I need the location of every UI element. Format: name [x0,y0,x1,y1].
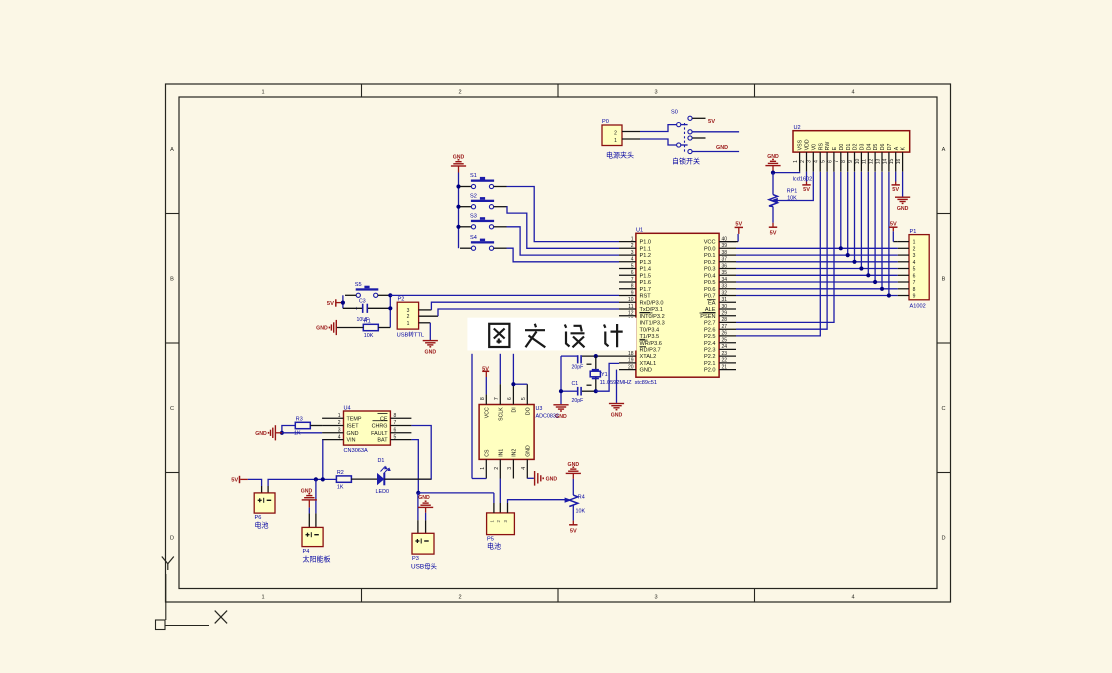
pin 1 U2 [799,152,801,172]
power 5V VCC [719,241,738,243]
svg-text:5V: 5V [327,301,334,307]
svg-text:电池: 电池 [487,542,501,551]
junction cap rail [559,389,563,393]
charger U4 [344,411,391,445]
svg-text:USB转TTL: USB转TTL [397,331,425,339]
pin 33 U1 [719,288,736,290]
svg-text:10: 10 [628,297,634,303]
wire S2 to U1 P1.1 [507,207,620,249]
svg-text:39: 39 [722,243,728,249]
wire BAT down [411,440,418,493]
svg-text:7: 7 [631,277,634,283]
wire P0.3 bus [736,268,898,270]
svg-text:9: 9 [913,294,916,300]
svg-text:2: 2 [494,467,500,470]
pin 4 U1 [619,261,636,263]
svg-text:INT0/P3.2: INT0/P3.2 [640,314,665,320]
svg-text:B: B [942,277,946,283]
adc U3 [479,405,534,460]
svg-text:RW: RW [825,142,831,151]
svg-text:GND: GND [611,413,623,419]
svg-text:GND: GND [347,431,359,437]
svg-text:1: 1 [793,160,799,163]
svg-text:8: 8 [631,284,634,290]
svg-text:C1: C1 [572,381,579,387]
pin 25 U1 [719,342,736,344]
pin 8 U1 [619,288,636,290]
svg-text:S1: S1 [470,173,477,179]
svg-text:S0: S0 [671,110,678,116]
svg-text:RST: RST [640,294,652,300]
pin 2 U3 [499,459,501,478]
svg-text:B: B [170,277,174,283]
wire key ground rail [458,173,460,249]
junction key rail S2 [456,205,460,209]
svg-text:12: 12 [869,159,875,165]
svg-text:P2.3: P2.3 [704,348,716,354]
svg-text:A: A [170,147,174,153]
svg-text:22: 22 [722,358,728,364]
svg-text:2: 2 [458,595,461,601]
svg-text:5V: 5V [892,187,899,193]
svg-text:P1.1: P1.1 [640,246,652,252]
svg-text:S4: S4 [470,235,477,241]
wire RP1 wiper to V0 [778,172,814,201]
svg-text:9: 9 [631,290,634,296]
wire LCD D4 [867,172,869,275]
svg-text:R3: R3 [296,417,303,423]
resistor R3 [295,422,310,428]
wire P0.4 bus [736,274,898,276]
svg-text:A1002: A1002 [910,304,926,310]
svg-text:GND: GND [255,431,267,437]
svg-text:3: 3 [807,160,813,163]
svg-text:BAT: BAT [377,438,388,444]
svg-text:A: A [942,147,946,153]
junction crystal bottom [594,389,598,393]
wire ADC DO join [513,383,527,385]
svg-text:5V: 5V [803,187,810,193]
svg-text:C: C [170,406,174,412]
junction key rail S1 [456,184,460,188]
connector P2 USB-TTL [397,302,418,329]
watermark char ji [604,324,623,347]
svg-text:电源夹头: 电源夹头 [606,150,634,159]
power 5V R4 [572,521,574,525]
svg-text:P2.0: P2.0 [704,368,716,374]
power 5V LCD A [895,172,897,182]
button S1 [460,186,471,188]
wire P0.6 bus [736,288,898,290]
UCS axis icon [165,574,167,620]
svg-text:P1.5: P1.5 [640,273,652,279]
ground reset resistor [335,320,337,335]
svg-text:20pF: 20pF [572,398,584,404]
wire S3 to U1 P1.2 [507,227,620,255]
svg-text:DO: DO [526,407,532,415]
svg-text:1K: 1K [294,431,301,437]
svg-text:3: 3 [507,467,513,470]
svg-text:7: 7 [913,280,916,286]
pin 37 U1 [719,261,736,263]
svg-text:19: 19 [628,358,634,364]
svg-text:P2.6: P2.6 [704,327,716,333]
wire P0 pin1 to S0 [622,138,640,140]
svg-text:10: 10 [855,159,861,165]
svg-text:P6: P6 [255,515,262,521]
wire ADC IN1 to P5 [499,479,501,504]
pin 10 U2 [860,152,862,172]
svg-text:5V: 5V [231,478,238,484]
svg-text:5V: 5V [735,222,742,228]
connector P0 [602,125,622,146]
svg-text:4: 4 [338,434,341,440]
svg-text:TEMP: TEMP [347,416,362,422]
pin 5 U1 [619,268,636,270]
pin 4 U4 [322,439,343,441]
svg-text:D: D [170,536,174,542]
svg-text:1: 1 [614,138,617,144]
junction contrast [771,171,775,175]
svg-text:CS: CS [485,449,491,457]
wire S0 contact 1 stub [692,117,705,119]
wire P0.7 bus [736,295,898,297]
svg-text:15: 15 [889,159,895,165]
power 5V P1 [892,227,894,231]
pin 34 U1 [719,281,736,283]
pin 7 U4 [390,425,411,427]
connector P3 usb [412,533,434,554]
resistor R1 [363,324,378,330]
pin 35 U1 [719,274,736,276]
svg-text:GND: GND [526,445,532,457]
pin overlines U1 [640,311,651,313]
watermark char wen [525,324,545,348]
pin 20 U1 [619,369,636,371]
wire LCD D7 [888,172,890,296]
junction D7 [887,293,891,297]
pin 29 U1 [719,315,736,317]
pin 23 U1 [719,355,736,357]
wire P1 pin1 to 5V [893,241,898,243]
pin 19 U1 [619,362,636,364]
svg-text:GND: GND [301,488,313,494]
junction D5 [873,280,877,284]
pin 13 U1 [619,321,636,323]
pin 10 U1 [619,301,636,303]
svg-text:3: 3 [338,428,341,434]
wire XTAL2 net [561,355,577,357]
svg-text:S3: S3 [470,214,477,220]
svg-text:36: 36 [722,263,728,269]
watermark char she [565,325,585,348]
svg-text:GND: GND [546,477,558,483]
svg-text:6: 6 [507,397,513,400]
svg-text:14: 14 [882,159,888,165]
svg-text:3: 3 [407,308,410,314]
svg-text:VSS: VSS [798,139,804,150]
svg-text:2: 2 [913,246,916,252]
wire P5 battery pin3 to R4 wiper [507,503,509,513]
svg-text:3: 3 [913,253,916,259]
svg-text:XTAL1: XTAL1 [640,361,657,367]
ground U4 [274,425,276,440]
svg-text:GND: GND [425,350,437,356]
pin 39 U1 [719,247,736,249]
wire P2 pin3 to U1 RxD [419,309,432,311]
pin 1 U4 [322,417,343,419]
svg-text:2: 2 [407,314,410,320]
svg-text:D1: D1 [378,458,385,464]
wire LCD VSS to gnd [773,171,800,174]
wire LCD D5 [874,172,876,282]
svg-text:RP1: RP1 [787,188,798,194]
svg-text:9: 9 [848,160,854,163]
svg-text:35: 35 [722,270,728,276]
pin 4 P1 [898,261,909,263]
svg-text:DI: DI [512,407,518,412]
svg-text:6: 6 [394,428,397,434]
svg-text:D0: D0 [839,144,845,151]
svg-text:FAULT: FAULT [371,431,388,437]
svg-text:P1.3: P1.3 [640,260,652,266]
junction 5V node [341,301,345,305]
svg-text:P2.4: P2.4 [704,341,716,347]
wire P2 pin1 to ground [419,322,431,324]
pin 5 P1 [898,268,909,270]
svg-text:WR/P3.6: WR/P3.6 [640,341,662,347]
wire crystal to XTAL1 [596,363,619,391]
svg-text:20pF: 20pF [572,364,584,370]
pin 31 U1 [719,301,736,303]
watermark char tu [489,324,509,347]
pin 2 P1 [898,247,909,249]
svg-text:3: 3 [654,90,657,96]
pin 5 U4 [390,439,411,441]
svg-text:P0.2: P0.2 [704,260,716,266]
svg-text:8: 8 [841,160,847,163]
svg-text:U4: U4 [344,405,351,411]
pin overlines U4 [378,412,388,414]
pin 9 U2 [854,152,856,172]
ground LCD K [902,196,904,198]
svg-text:11: 11 [628,304,633,310]
wire LCD K to gnd [902,172,904,197]
svg-text:VCC: VCC [704,240,716,246]
svg-text:10K: 10K [364,333,374,339]
svg-text:R4: R4 [578,495,585,501]
wire P2.7 to LCD E [736,172,834,323]
pin 3 U4 [322,432,343,434]
mcu U1 [636,233,719,377]
svg-text:1: 1 [913,240,916,246]
svg-text:GND: GND [897,206,909,212]
svg-text:D4: D4 [866,144,872,151]
connector P6 battery [254,493,275,513]
svg-text:P0.1: P0.1 [704,253,716,259]
connector P1 [909,235,929,300]
svg-text:5: 5 [913,267,916,273]
svg-text:37: 37 [722,257,728,263]
wire P5 battery pin1 [493,493,495,503]
wire LCD D6 [881,172,883,289]
pin 4 U3 [526,459,528,478]
pin 3 U3 [512,459,514,478]
pin 5 U3 [526,384,528,404]
svg-text:P0.5: P0.5 [704,280,716,286]
svg-text:R2: R2 [337,470,344,476]
svg-text:P1.7: P1.7 [640,287,652,293]
crystal Y1 [595,356,597,391]
svg-text:U3: U3 [536,406,543,412]
pin 12 U1 [619,315,636,317]
pin 9 U1 [619,295,636,297]
pin 30 U1 [719,308,736,310]
svg-text:自锁开关: 自锁开关 [672,156,700,165]
button S2 [460,206,471,208]
wire P2.5 to LCD RS [736,172,820,336]
svg-text:GND: GND [640,368,652,374]
pin 6 P1 [898,274,909,276]
svg-text:VDD: VDD [805,139,811,150]
junction D2 [852,260,856,264]
pin 36 U1 [719,268,736,270]
svg-text:P0.6: P0.6 [704,287,716,293]
svg-text:11: 11 [862,159,868,164]
svg-text:T0/P3.4: T0/P3.4 [640,327,660,333]
svg-text:5V: 5V [890,221,897,227]
wire ADC CS out [472,478,486,480]
svg-text:7: 7 [834,160,840,163]
svg-text:32: 32 [722,290,728,296]
pin 27 U1 [719,328,736,330]
svg-text:P2.2: P2.2 [704,354,716,360]
svg-text:IN2: IN2 [512,449,518,457]
svg-text:1: 1 [261,90,264,96]
svg-text:6: 6 [631,270,634,276]
pin 38 U1 [719,254,736,256]
svg-text:CE: CE [380,416,388,422]
svg-text:2: 2 [631,243,634,249]
svg-text:GND: GND [418,495,430,501]
pin 2 U1 [619,247,636,249]
svg-text:33: 33 [722,284,728,290]
pin 24 U1 [719,348,736,350]
svg-text:A: A [894,146,900,150]
svg-text:5V: 5V [708,119,715,125]
wire solar gnd drop [315,479,317,513]
junction BAT node [416,491,420,495]
pin 40 U1 [719,241,736,243]
pin 13 U2 [881,152,883,172]
svg-text:RxD/P3.0: RxD/P3.0 [640,300,664,306]
pin 8 U3 [485,394,487,404]
ground ADC [534,471,536,486]
wire S1 to U1 P1.0 [507,187,620,242]
svg-text:P0.4: P0.4 [704,273,716,279]
svg-text:7: 7 [394,420,397,426]
pin 7 U1 [619,281,636,283]
svg-text:XTAL2: XTAL2 [640,354,657,360]
junction DI DO [511,382,515,386]
button S3 [460,226,471,228]
svg-text:RD/P3.7: RD/P3.7 [640,348,661,354]
svg-text:D3: D3 [860,144,866,151]
junction key rail S3 [456,225,460,229]
svg-text:+: + [355,306,359,312]
wire P6 pin2 rail [267,486,269,493]
wire 5V to P6 pin1 [248,479,262,486]
svg-text:S2: S2 [470,193,477,199]
svg-text:1: 1 [631,236,634,242]
wire RP1 bottom [772,207,774,223]
lcd header U2 [793,131,910,152]
svg-text:8: 8 [480,397,486,400]
svg-text:13: 13 [875,159,881,165]
pin 2 U2 [806,152,808,172]
svg-text:P4: P4 [303,549,310,555]
svg-text:USB母头: USB母头 [411,562,438,571]
svg-text:SCLK: SCLK [499,407,505,421]
pin 14 U1 [619,328,636,330]
pin 17 U1 [619,348,636,350]
wire S4 to U1 P1.3 [507,248,620,262]
wire RST to U1 pin9 [390,294,619,296]
pin 7 U3 [499,384,501,404]
svg-text:5: 5 [631,263,634,269]
wire P0.0 bus [736,247,898,249]
svg-text:RS: RS [818,143,824,151]
svg-text:4: 4 [631,257,634,263]
wire R3 to gnd node [282,426,295,433]
svg-text:VIN: VIN [347,438,356,444]
svg-text:24: 24 [722,344,728,350]
wire cap rail [560,356,562,404]
sheet border frame [166,84,951,602]
junction rail a [314,477,318,481]
pin 3 P1 [898,254,909,256]
pin 9 P1 [898,295,909,297]
svg-text:1: 1 [407,321,410,327]
svg-text:R1: R1 [364,319,371,325]
svg-text:P1.0: P1.0 [640,240,652,246]
svg-text:C: C [941,406,945,412]
pin 7 P1 [898,281,909,283]
svg-text:10K: 10K [576,508,586,514]
svg-text:34: 34 [722,277,728,283]
svg-text:P3: P3 [412,556,419,562]
svg-text:E: E [832,146,838,150]
power 5V RP1 [772,223,774,227]
wire S0 contact 3 stub [692,137,705,139]
wire S0 to 5V net [692,131,739,133]
wire P0.1 bus [736,254,898,256]
svg-text:5: 5 [521,397,527,400]
pin 2 U4 [322,425,343,427]
wire contrast rail [772,173,774,195]
svg-text:4: 4 [814,160,820,163]
svg-text:PSEN: PSEN [700,314,715,320]
pin 15 U1 [619,335,636,337]
svg-text:8: 8 [394,413,397,419]
svg-text:4: 4 [851,90,854,96]
svg-text:23: 23 [722,351,728,357]
wire R4 bottom [572,505,574,520]
svg-text:20: 20 [628,364,634,370]
svg-text:S5: S5 [355,282,362,288]
svg-text:6: 6 [913,273,916,279]
wire P0.5 bus [736,281,898,283]
